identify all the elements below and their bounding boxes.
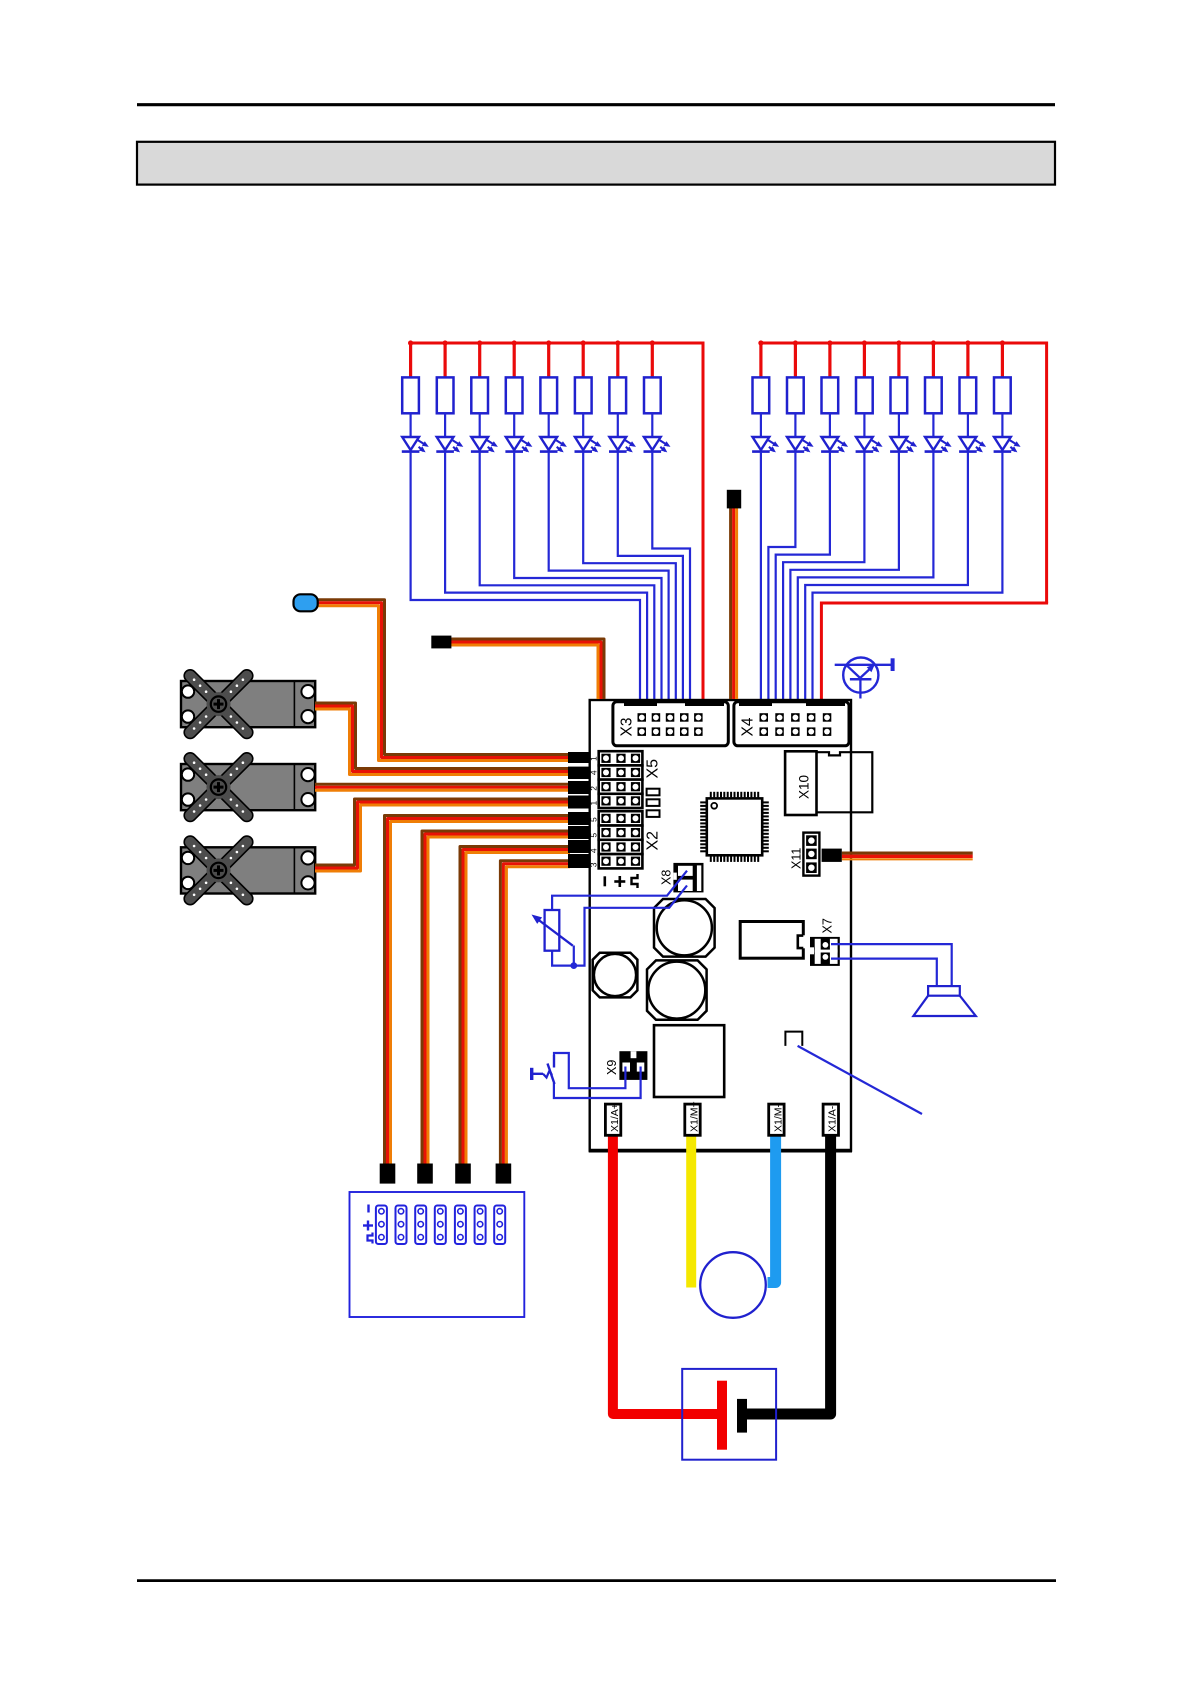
svg-text:X1/M-: X1/M- (772, 1103, 784, 1132)
svg-text:X10: X10 (797, 775, 812, 799)
svg-text:X5: X5 (645, 759, 662, 779)
svg-text:X4: X4 (740, 717, 757, 736)
svg-text:X2: X2 (645, 831, 662, 851)
svg-text:X9: X9 (605, 1060, 619, 1075)
svg-text:X1/A-: X1/A- (827, 1105, 839, 1132)
svg-text:X8: X8 (660, 870, 674, 885)
svg-text:X11: X11 (790, 848, 804, 869)
svg-text:X3: X3 (619, 718, 636, 737)
svg-text:X1/A+: X1/A+ (609, 1103, 621, 1132)
svg-text:X7: X7 (821, 918, 835, 933)
svg-text:X1/M+: X1/M+ (688, 1101, 700, 1132)
